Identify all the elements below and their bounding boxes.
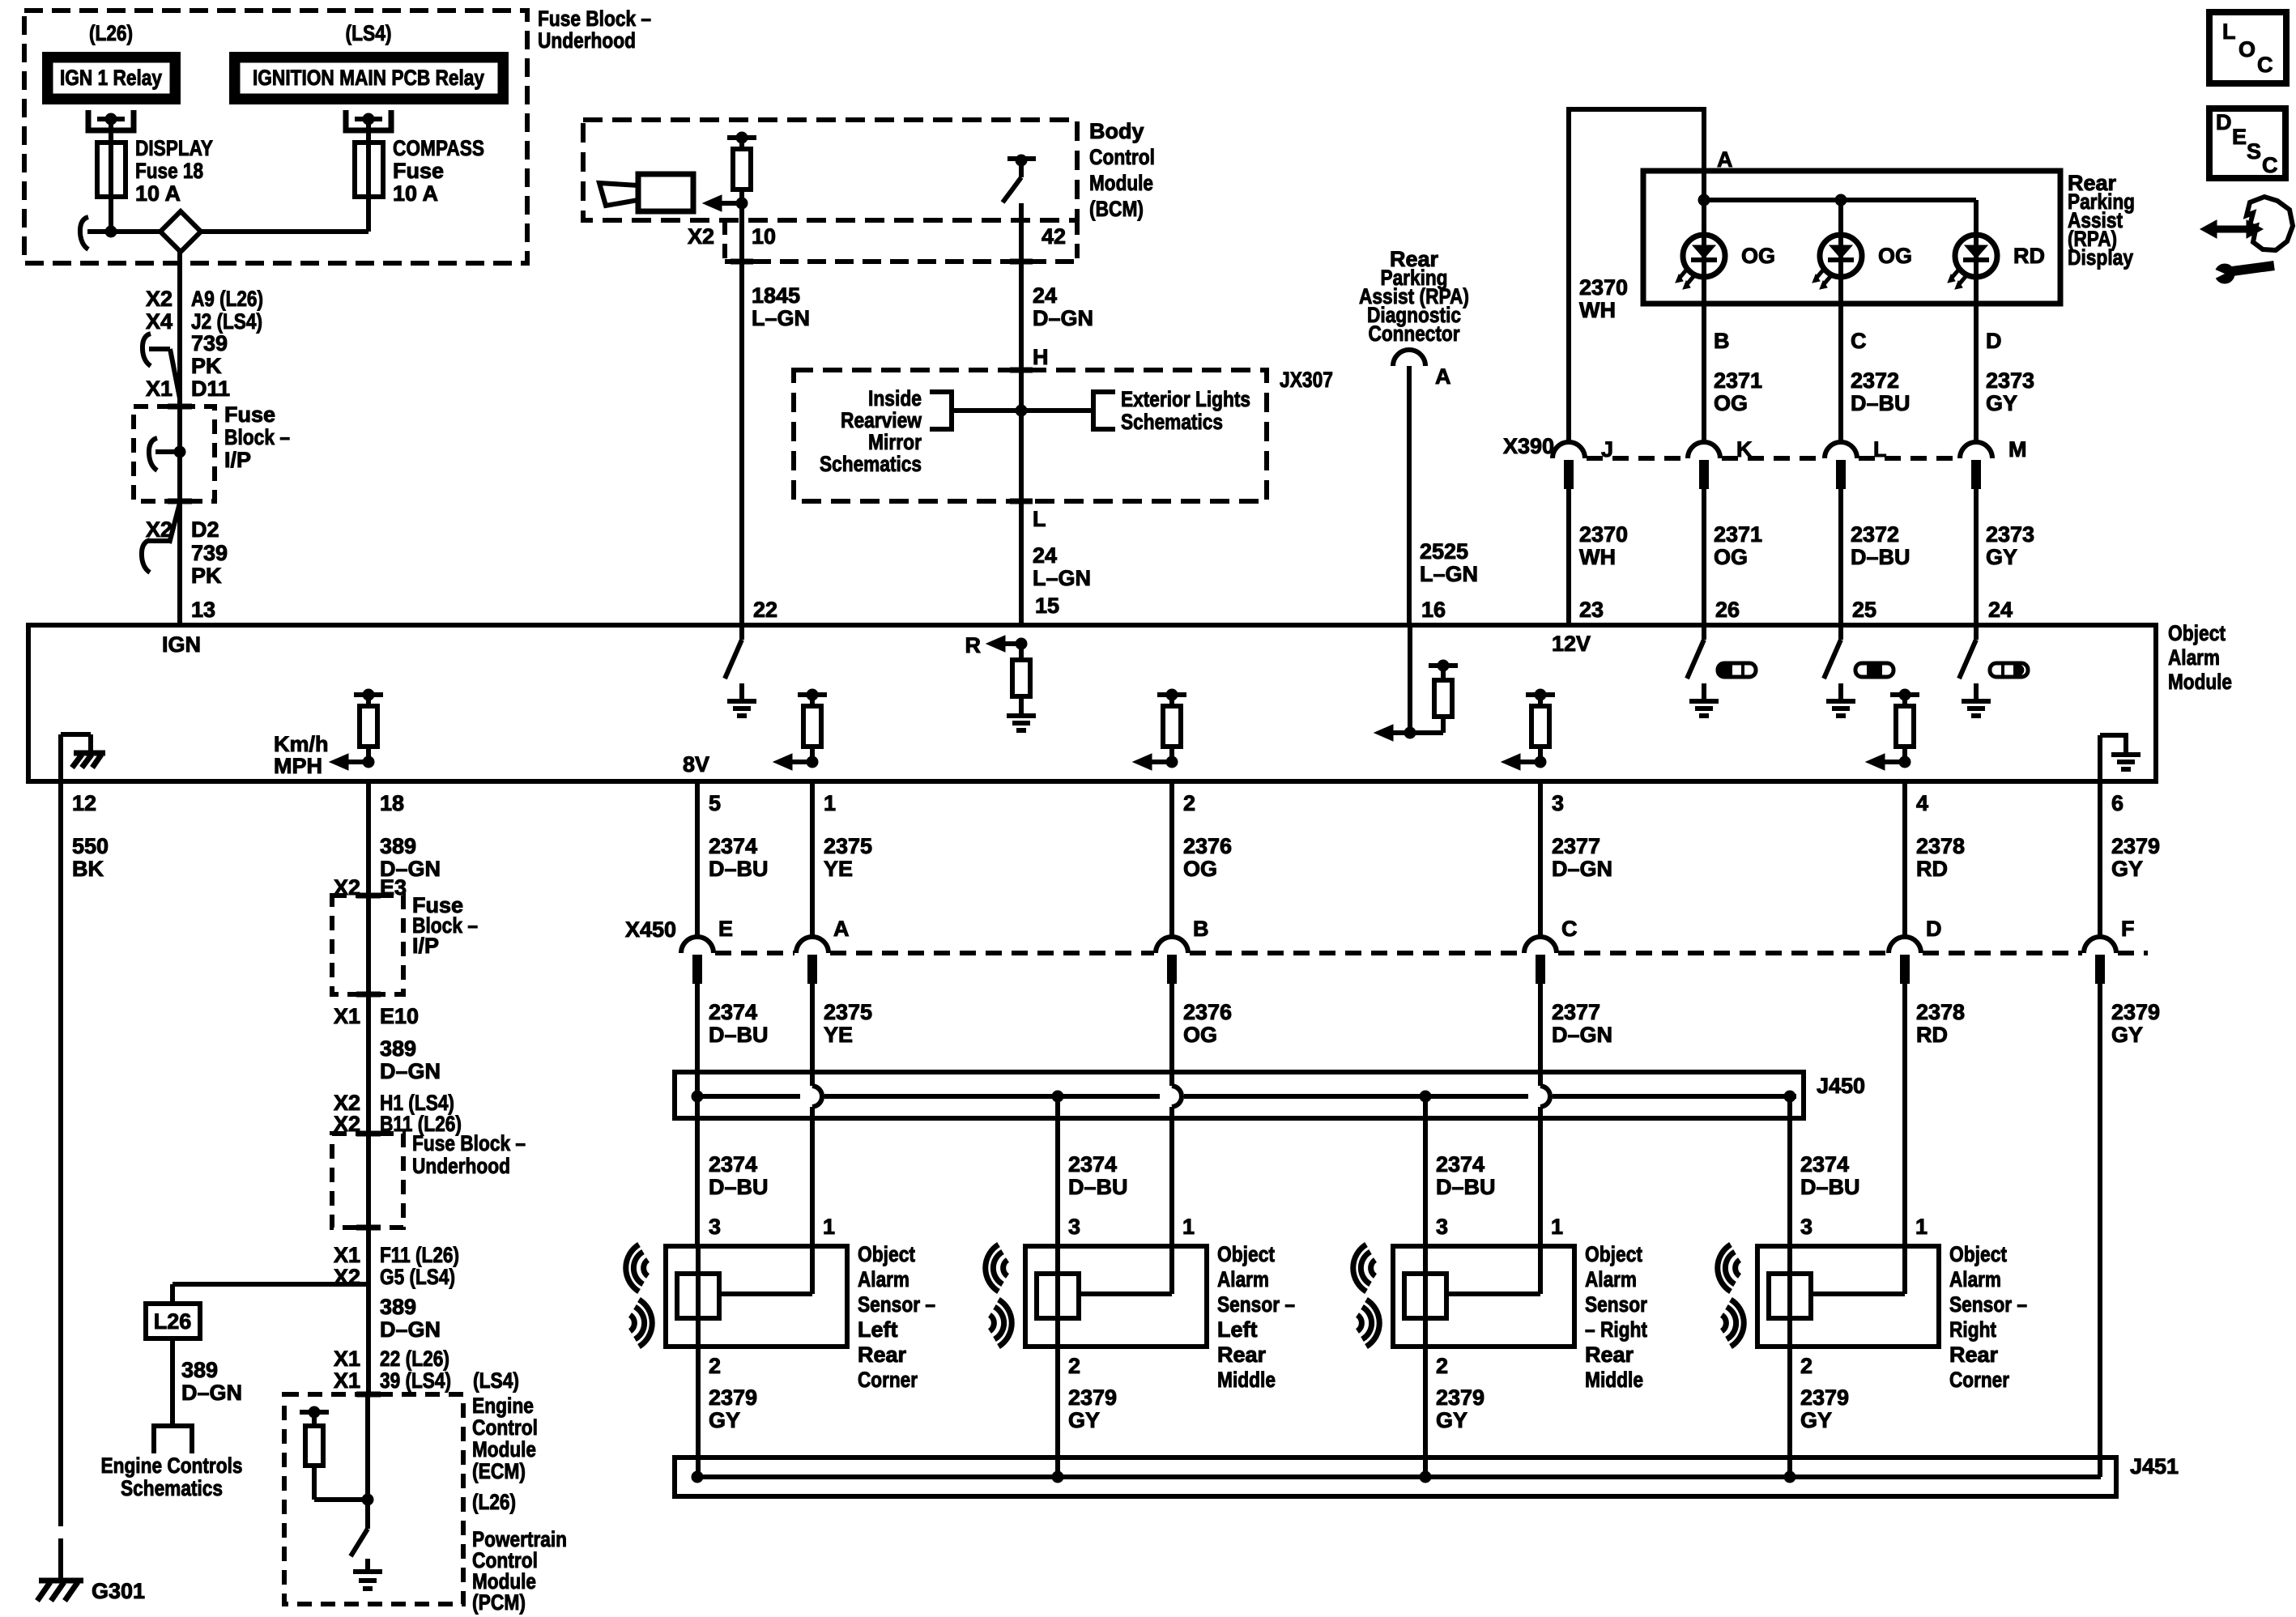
svg-text:D: D [1986,329,2002,353]
service icon (arrows, panel, wrench) [2200,197,2293,283]
svg-text:RD: RD [1916,857,1948,881]
splice bus J450 [675,1072,1865,1118]
svg-text:2377: 2377 [1552,834,1600,858]
module internal switch to ground (pin 22) [725,625,756,716]
connector X450 cavity D [1889,917,1942,984]
wire 2370 WH below X390 to pin 23 [1566,489,1571,625]
label Fuse Block - Underhood (center) [412,1131,526,1178]
svg-text:OG: OG [1714,391,1748,415]
svg-text:1: 1 [1551,1215,1563,1239]
svg-text:L–GN: L–GN [752,306,810,330]
label X2 A9 (L26) / X4 J2 (LS4) [146,287,263,334]
inline connector (739 PK lower) [142,503,180,572]
svg-text:2371: 2371 [1714,522,1762,547]
label 2376 OG (upper) [1183,834,1232,881]
module internal R input (pin 15) [965,633,1037,730]
sensor left rear corner sound waves [626,1245,653,1347]
relay output terminal (IGNITION MAIN PCB Relay) [346,110,391,130]
svg-text:(BCM): (BCM) [1089,197,1144,221]
svg-text:Rear: Rear [858,1343,907,1367]
svg-text:8V: 8V [683,752,709,777]
label 2379 GY (sensor left rear corner) [709,1385,757,1432]
svg-text:IGN 1 Relay: IGN 1 Relay [60,66,162,90]
sensor right rear corner pin 2 wire to J451 [1787,1347,1792,1477]
label COMPASS Fuse 10 A [393,136,484,206]
svg-text:2374: 2374 [1436,1152,1485,1177]
label 389 D-GN (below pin 18) [380,834,441,881]
svg-text:Rear: Rear [1949,1343,1999,1367]
label X2 pin 10 pin 42 [688,224,1066,249]
svg-text:Rear: Rear [1585,1343,1634,1367]
sensor left rear corner transducer square [677,1274,719,1318]
label Object Alarm Module [2168,621,2232,694]
svg-text:B: B [1714,329,1730,353]
svg-text:Exterior Lights: Exterior Lights [1121,387,1250,411]
wire 739 PK splice to fuse block I/P [177,252,182,406]
wire 2374 D-BU J450 drop at x1306 [1055,1096,1060,1246]
svg-text:WH: WH [1579,545,1616,569]
label B C D (display pins) [1714,329,2002,353]
label 2374 D-BU (upper) [709,834,769,881]
svg-text:Middle: Middle [1585,1368,1643,1392]
fuse F18 DISPLAY 10A [97,143,126,197]
svg-text:BK: BK [72,857,104,881]
sensor left rear middle pin 3 wire through [1055,1246,1060,1347]
label 2374 D-BU (sensor left rear middle) [1068,1152,1128,1199]
wire 2374 D-BU module to X450 [695,781,700,938]
svg-text:389: 389 [380,834,416,858]
svg-text:PK: PK [191,564,222,588]
label JX307 [1280,368,1333,392]
ground G301 [37,1563,145,1603]
label 739 PK (upper) [191,331,228,378]
svg-text:L: L [1873,437,1887,462]
wire 2374 D-BU J450 drop at x2210 [1787,1096,1792,1246]
wire 2525 L-GN to module pin 16 [1407,366,1412,625]
svg-text:G5 (LS4): G5 (LS4) [380,1265,455,1289]
pin 6 label [2111,791,2123,815]
svg-text:Module: Module [472,1437,536,1462]
off-page connector to engine controls schematics [154,1426,192,1453]
ECM internal switch to ground [351,1529,382,1589]
wire 550 BK pin 12 to G301 [58,781,63,1563]
label X1 F11 (L26) / X2 G5 (LS4) [334,1243,459,1289]
pin 18 label [380,791,404,815]
sensor left rear corner pin 1 internal wire [719,1246,812,1294]
svg-text:10 A: 10 A [393,181,438,206]
bracket to exterior lights schematics [1021,392,1115,429]
svg-text:F: F [2121,917,2135,941]
wire from IGNITION MAIN relay to COMPASS fuse [366,119,371,143]
label 24 L-GN [1033,543,1091,590]
wire E through J450 to sensor 1 pin 3 [695,1086,700,1246]
pin 15 label [1035,594,1059,618]
svg-text:Underhood: Underhood [538,28,636,53]
svg-text:Inside: Inside [868,386,922,411]
splice bus J451 [675,1454,2179,1496]
svg-text:2374: 2374 [709,834,757,858]
body control module BCM (dashed box) [583,120,1077,220]
resistor inside BCM (pin 10 output) [703,132,756,211]
label 2374 D-BU (sensor right rear middle) [1436,1152,1496,1199]
label 2377 D-GN (below X450) [1552,1000,1612,1047]
svg-text:I/P: I/P [224,448,251,472]
wire 2373 GY to pin 24 [1974,489,1979,625]
LED 1 (OG) [1676,235,1775,289]
label Engine Controls Schematics [101,1453,243,1500]
svg-text:C: C [1851,329,1867,353]
svg-text:2379: 2379 [2111,1000,2160,1024]
svg-text:389: 389 [181,1358,218,1382]
svg-text:D–GN: D–GN [181,1381,242,1405]
svg-text:C: C [2257,53,2273,77]
svg-text:(LS4): (LS4) [473,1368,519,1393]
label 389 D-GN (lower) [380,1295,441,1342]
svg-text:E: E [2232,125,2247,149]
connector X450 cavity C [1524,917,1578,984]
bracket to inside rearview mirror schematics [930,392,1021,429]
svg-text:Schematics: Schematics [1121,410,1223,434]
wire 389 D-GN from L26 to engine controls [170,1338,175,1426]
wire 389 branch to L26 connector [173,1284,368,1304]
svg-text:X1: X1 [334,1347,360,1371]
svg-text:D: D [1926,917,1942,941]
svg-text:2371: 2371 [1714,368,1762,393]
label Engine Control Module (ECM) [472,1394,538,1483]
svg-text:Control: Control [472,1415,538,1440]
label object alarm sensor right rear middle [1585,1242,1647,1392]
svg-text:Alarm: Alarm [1585,1267,1637,1291]
label 2371 OG (above X390) [1714,368,1762,415]
label 1845 L-GN [752,283,810,330]
svg-text:2374: 2374 [1800,1152,1849,1177]
label (LS4) at ECM [473,1368,519,1393]
connector X390 dashed line [1587,456,1958,461]
label 2371 OG (below X390) [1714,522,1762,569]
svg-text:739: 739 [191,331,228,355]
label X450 [625,917,676,942]
object alarm sensor right rear middle (box) [1393,1246,1574,1347]
svg-text:24: 24 [1033,543,1057,568]
wire from IGN 1 relay to DISPLAY fuse [109,119,113,143]
module internal switch to ground + segment indicator (pin 26) [1687,625,1756,716]
label Inside Rearview Mirror Schematics [820,386,922,476]
svg-text:GY: GY [2111,1023,2143,1047]
label 2377 D-GN (upper) [1552,834,1612,881]
svg-text:2376: 2376 [1183,834,1232,858]
svg-text:C: C [2262,153,2278,177]
svg-text:D2: D2 [191,517,219,542]
sensor left rear middle pin labels 3 1 2 [1068,1215,1195,1378]
svg-text:Object: Object [1949,1242,2007,1266]
svg-text:2372: 2372 [1851,522,1899,547]
svg-text:10: 10 [752,224,776,249]
svg-text:GY: GY [709,1408,740,1432]
svg-text:OG: OG [1714,545,1748,569]
label Fuse Block - Underhood [538,6,651,53]
svg-text:2379: 2379 [1800,1385,1849,1410]
svg-text:X2: X2 [146,287,173,311]
svg-text:GY: GY [2111,857,2143,881]
label 389 D-GN (L26 branch) [181,1358,242,1405]
label object alarm sensor left rear middle [1217,1242,1295,1392]
LED 2 (OG) [1813,235,1912,289]
svg-text:1: 1 [823,1215,835,1239]
svg-text:E10: E10 [380,1004,419,1028]
splice pack JX307 (dashed box) [794,370,1267,501]
svg-text:GY: GY [1068,1408,1100,1432]
wire 2377 D-GN module to X450 [1538,781,1543,938]
label X1 D11 [146,377,230,401]
svg-text:J451: J451 [2130,1454,2179,1479]
svg-text:Object: Object [858,1242,915,1266]
svg-text:22 (L26): 22 (L26) [380,1347,449,1371]
label Rear Parking Assist (RPA) Display [2068,171,2135,270]
wire 389 to ECM [366,1228,371,1394]
svg-text:S: S [2247,139,2261,164]
svg-text:Alarm: Alarm [858,1267,909,1291]
svg-text:(ECM): (ECM) [472,1459,526,1483]
wire 2379 GY module to X450 [2098,781,2102,938]
svg-text:D–GN: D–GN [1552,857,1612,881]
LOC reference icon [2209,12,2286,83]
svg-text:16: 16 [1421,598,1446,622]
svg-text:2374: 2374 [709,1000,757,1024]
svg-text:L–GN: L–GN [1033,566,1091,590]
sensor left rear corner pin 2 wire to J451 [696,1347,701,1477]
wire 2376 OG module to X450 [1169,781,1174,938]
sensor right rear middle sound waves [1353,1245,1380,1347]
display internal 12V bus [1698,171,1976,235]
label 2372 D-BU (above X390) [1851,368,1910,415]
svg-text:Fuse 18: Fuse 18 [135,159,203,183]
svg-text:Engine: Engine [472,1394,534,1418]
svg-text:(PCM): (PCM) [472,1590,526,1615]
wire 2378 RD module to X450 [1902,781,1907,938]
svg-text:G301: G301 [92,1579,145,1603]
sensor right rear middle pin 1 internal wire [1446,1246,1540,1294]
svg-text:Left: Left [858,1317,898,1342]
label 2379 GY (sensor right rear middle) [1436,1385,1485,1432]
module internal 8V driver (pin 1) [683,689,827,777]
pin 4 label [1916,791,1928,815]
svg-text:2379: 2379 [2111,834,2160,858]
svg-text:550: 550 [72,834,109,858]
relay output terminal (IGN 1 Relay) [88,110,134,130]
svg-text:3: 3 [709,1215,721,1239]
connector X450 dashed line [715,951,2148,955]
svg-text:1: 1 [1915,1215,1928,1239]
svg-text:Middle: Middle [1217,1368,1276,1392]
wire 24 through JX307 [1019,370,1024,501]
svg-text:X1: X1 [146,377,173,401]
svg-text:RD: RD [2013,244,2045,268]
svg-text:OG: OG [1878,244,1912,268]
svg-text:6: 6 [2111,791,2123,815]
label X1 22 (L26) / X1 39 (LS4) [334,1347,451,1393]
label (LS4) [346,21,392,45]
svg-text:10 A: 10 A [135,181,181,206]
label 2374 D-BU (sensor left rear corner) [709,1152,769,1199]
svg-text:Left: Left [1217,1317,1258,1342]
sensor left rear corner pin labels 3 1 2 [709,1215,835,1378]
label object alarm sensor right rear corner [1949,1242,2027,1392]
svg-text:L–GN: L–GN [1420,562,1478,586]
svg-text:Connector: Connector [1369,321,1460,346]
wire 739 PK to module pin 13 [177,501,182,625]
svg-text:D–BU: D–BU [1068,1175,1128,1199]
BCM connector X2 band [725,220,1077,262]
svg-text:22: 22 [753,598,777,622]
wire 389 through fuse block underhood [366,1134,371,1228]
label X2 E3 [334,875,407,900]
svg-text:Right: Right [1949,1317,1996,1342]
connector X390 cavity K [1688,437,1753,489]
svg-text:J2 (LS4): J2 (LS4) [191,309,262,334]
label 2379 GY (sensor right rear corner) [1800,1385,1849,1432]
svg-text:2378: 2378 [1916,834,1965,858]
label 2379 GY (below X450) [2111,1000,2160,1047]
svg-text:2379: 2379 [1068,1385,1117,1410]
svg-text:3: 3 [1552,791,1564,815]
svg-text:Schematics: Schematics [820,452,922,476]
pin 16 label [1421,598,1446,622]
fuse block - I/P (dashed, center) [332,896,403,994]
label 2373 GY (below X390) [1986,522,2034,569]
svg-text:Fuse: Fuse [224,402,275,427]
module internal driver (pin 2) [1133,689,1186,770]
svg-text:2373: 2373 [1986,368,2034,393]
pin 1 label [824,791,836,815]
label A (display feed) [1717,147,1733,172]
svg-text:C: C [1561,917,1578,941]
svg-text:COMPASS: COMPASS [393,136,484,160]
wire 389 through fuse block I/P [366,896,371,994]
label 2372 D-BU (below X390) [1851,522,1910,569]
fuse block - I/P (dashed, left) [134,406,215,501]
sensor right rear middle pin 3 wire through [1423,1246,1428,1347]
svg-text:Mirror: Mirror [868,430,922,454]
svg-text:2: 2 [1436,1354,1448,1378]
sensor left rear middle pin 2 wire to J451 [1055,1347,1060,1477]
svg-text:1845: 1845 [752,283,800,308]
wire 2377 below X450 [1540,984,1550,1246]
object alarm sensor left rear corner (box) [666,1246,847,1347]
sensor left rear middle pin 1 internal wire [1079,1246,1172,1294]
pin 26 label [1715,598,1740,622]
svg-text:389: 389 [380,1036,416,1061]
label 2376 OG (below X450) [1183,1000,1232,1047]
svg-text:Corner: Corner [858,1368,918,1392]
svg-text:Engine Controls: Engine Controls [101,1453,243,1478]
label X1 E10 [334,1004,419,1028]
svg-text:D–GN: D–GN [380,1317,441,1342]
pin 24 label [1988,598,2013,622]
label X2 H1 (LS4) / X2 B11 (L26) [334,1091,462,1136]
svg-text:(L26): (L26) [472,1490,516,1514]
svg-text:2378: 2378 [1916,1000,1965,1024]
svg-text:M: M [2008,437,2027,462]
object alarm sensor left rear middle (box) [1025,1246,1207,1347]
svg-text:2379: 2379 [1436,1385,1485,1410]
label X2 D2 [146,517,219,542]
wire 2371 OG to pin 26 [1702,489,1706,625]
svg-text:YE: YE [824,857,853,881]
J451 internal wire with splices [692,1471,2101,1483]
splice diamond S1 [160,211,201,252]
svg-text:24: 24 [1988,598,2013,622]
svg-text:Module: Module [1089,171,1153,195]
pin 13 label [191,598,215,622]
terminal tap inside fuse block I/P [149,438,185,470]
svg-text:WH: WH [1579,298,1616,322]
svg-text:X1: X1 [334,1004,360,1028]
sensor left rear middle transducer square [1037,1274,1079,1318]
relay K2 IGNITION MAIN PCB Relay [229,52,509,104]
svg-text:(LS4): (LS4) [346,21,392,45]
svg-text:D–BU: D–BU [709,1175,769,1199]
label 389 D-GN (mid) [380,1036,441,1083]
svg-text:D–GN: D–GN [1033,306,1093,330]
svg-text:B: B [1193,917,1209,941]
svg-text:D–BU: D–BU [1851,391,1910,415]
wire through fuse block I/P [177,406,182,501]
svg-text:L26: L26 [154,1309,192,1334]
pin 2 label [1183,791,1195,815]
svg-text:Underhood: Underhood [412,1154,510,1178]
sensor right rear middle pin labels 3 1 2 [1436,1215,1563,1378]
svg-text:39 (LS4): 39 (LS4) [380,1368,451,1393]
svg-text:Rearview: Rearview [841,408,922,432]
pin 5 label [709,791,721,815]
svg-text:OG: OG [1183,857,1217,881]
sensor right rear middle transducer square [1404,1274,1446,1318]
svg-text:Fuse Block –: Fuse Block – [538,6,651,31]
wire 389 inside ECM [365,1394,370,1529]
svg-text:2525: 2525 [1420,539,1468,564]
label 2378 RD (upper) [1916,834,1965,881]
inline terminal curl at splice [80,217,111,249]
svg-text:2370: 2370 [1579,275,1628,300]
svg-text:Sensor –: Sensor – [1217,1292,1295,1317]
svg-text:3: 3 [1436,1215,1448,1239]
sensor right rear corner sound waves [1718,1245,1744,1347]
svg-text:Rear: Rear [1217,1343,1267,1367]
chime / horn symbol inside BCM [599,174,693,211]
fuse COMPASS 10A [355,143,383,197]
label 2373 GY (above X390) [1986,368,2034,415]
svg-text:YE: YE [824,1023,853,1047]
svg-text:Fuse Block –: Fuse Block – [412,1131,526,1155]
svg-text:3: 3 [1800,1215,1813,1239]
svg-text:RD: RD [1916,1023,1948,1047]
wire 2374 D-BU J450 drop at x1760 [1423,1096,1428,1246]
svg-text:Schematics: Schematics [121,1476,223,1500]
relay K1 IGN 1 Relay [42,52,181,104]
svg-text:2379: 2379 [709,1385,757,1410]
rear parking assist RPA display (box) [1643,171,2060,304]
svg-text:D–BU: D–BU [1436,1175,1496,1199]
svg-text:– Right: – Right [1585,1317,1647,1342]
connector L26 [146,1304,200,1338]
svg-text:GY: GY [1986,391,2017,415]
label 2370 WH (below X390) [1579,522,1628,569]
label Fuse Block - I/P (center) [412,893,478,958]
DESC reference icon [2209,109,2285,178]
svg-text:4: 4 [1916,791,1928,815]
svg-text:IGNITION MAIN PCB Relay: IGNITION MAIN PCB Relay [253,66,484,90]
sensor right rear corner transducer square [1769,1274,1811,1318]
